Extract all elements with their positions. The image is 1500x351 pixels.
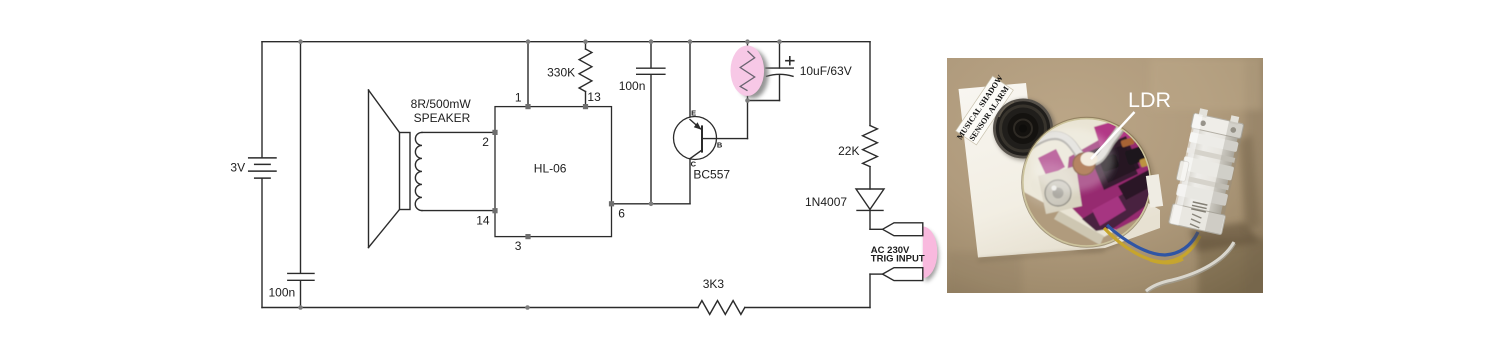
svg-text:SPEAKER: SPEAKER <box>414 111 471 125</box>
svg-text:1N4007: 1N4007 <box>805 195 847 209</box>
svg-text:TRIG INPUT: TRIG INPUT <box>871 253 925 264</box>
svg-text:14: 14 <box>476 213 490 227</box>
svg-text:1: 1 <box>515 91 522 105</box>
svg-text:100n: 100n <box>269 286 296 300</box>
svg-text:10uF/63V: 10uF/63V <box>800 64 852 78</box>
svg-text:BC557: BC557 <box>693 168 730 182</box>
svg-text:2: 2 <box>482 135 489 149</box>
svg-text:22K: 22K <box>838 144 859 158</box>
svg-text:E: E <box>691 108 696 117</box>
svg-text:8R/500mW: 8R/500mW <box>411 97 472 111</box>
svg-text:330K: 330K <box>547 66 575 80</box>
svg-text:100n: 100n <box>619 79 646 93</box>
svg-text:3V: 3V <box>230 161 245 175</box>
svg-text:6: 6 <box>618 207 625 221</box>
svg-text:B: B <box>717 141 723 150</box>
svg-text:13: 13 <box>587 90 601 104</box>
svg-text:3K3: 3K3 <box>703 277 725 291</box>
svg-text:C: C <box>691 159 697 168</box>
svg-text:3: 3 <box>515 239 522 253</box>
svg-text:HL-06: HL-06 <box>534 161 567 175</box>
svg-text:LDR: LDR <box>1128 88 1171 112</box>
